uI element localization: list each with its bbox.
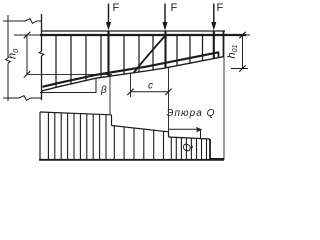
- stirrups at load points (thick verticals): [109, 32, 214, 77]
- support axis vertical line (left): [7, 15, 9, 58]
- svg-text:h01: h01: [226, 44, 239, 58]
- svg-text:β: β: [100, 85, 107, 96]
- Q diagram step 3 drop: [209, 139, 211, 160]
- Q diagram step 3 top edge: [169, 137, 211, 139]
- Q diagram left edge: [39, 112, 41, 160]
- svg-text:F: F: [113, 2, 120, 14]
- Q diagram step 1 top edge: [40, 112, 112, 115]
- Q diagram step 2 top edge: [112, 126, 169, 132]
- Q diagram step 2 drop: [168, 132, 170, 137]
- svg-text:Q: Q: [182, 143, 194, 152]
- Q diagram step 1 drop: [111, 115, 113, 126]
- stirrups (thin verticals): [56, 35, 203, 87]
- angle beta: vertical tick: [95, 78, 97, 92]
- force F (middle): [162, 2, 177, 31]
- svg-text:c: c: [148, 81, 153, 92]
- Q step height indicator: horizontal line with arrow: [169, 128, 200, 130]
- svg-text:F: F: [217, 2, 224, 14]
- beam top edge (thin): [42, 30, 226, 32]
- bottom reinforcement line (thick, sloped): [43, 52, 219, 87]
- S-break on beam left edge: [39, 51, 44, 56]
- bottom break line with S-break: [3, 97, 19, 99]
- dimension h01 (vertical, right): [242, 35, 244, 69]
- top break line with S-break: [3, 20, 25, 22]
- force F (right): [211, 2, 223, 31]
- S-break on support axis: [6, 58, 11, 63]
- angle beta: horizontal reference line: [40, 92, 97, 94]
- h0 lower extension line (horizontal to rebar): [27, 73, 112, 75]
- inclined crack: [134, 35, 166, 73]
- rebar end hook: [218, 52, 220, 58]
- svg-text:h0: h0: [7, 49, 20, 59]
- beam right edge: [223, 31, 225, 57]
- beam bottom soffit (sloped): [42, 57, 225, 91]
- dimension h0 (vertical, left): [26, 35, 28, 74]
- Q diagram right end mini-step: [210, 158, 224, 160]
- Q diagram baseline: [39, 159, 224, 161]
- beam left edge: [41, 14, 43, 51]
- Q diagram hatching: [48, 112, 206, 160]
- beam top reinforcement line (thick), extends as h0/h01 extension lines: [14, 34, 250, 36]
- Q step height indicator: vertical drop: [200, 129, 202, 138]
- h01 lower extension line: [231, 68, 248, 70]
- dimension c: right extension line (continues down to Q diagram step): [168, 67, 170, 131]
- svg-text:F: F: [171, 2, 178, 14]
- dimension c: left extension line: [130, 73, 132, 97]
- svg-text:Эпюра Q: Эпюра Q: [167, 108, 216, 119]
- extension line from beam to Q diagram step 1: [109, 75, 111, 115]
- force F (left): [106, 2, 120, 31]
- dimension c: dimension line: [131, 91, 169, 93]
